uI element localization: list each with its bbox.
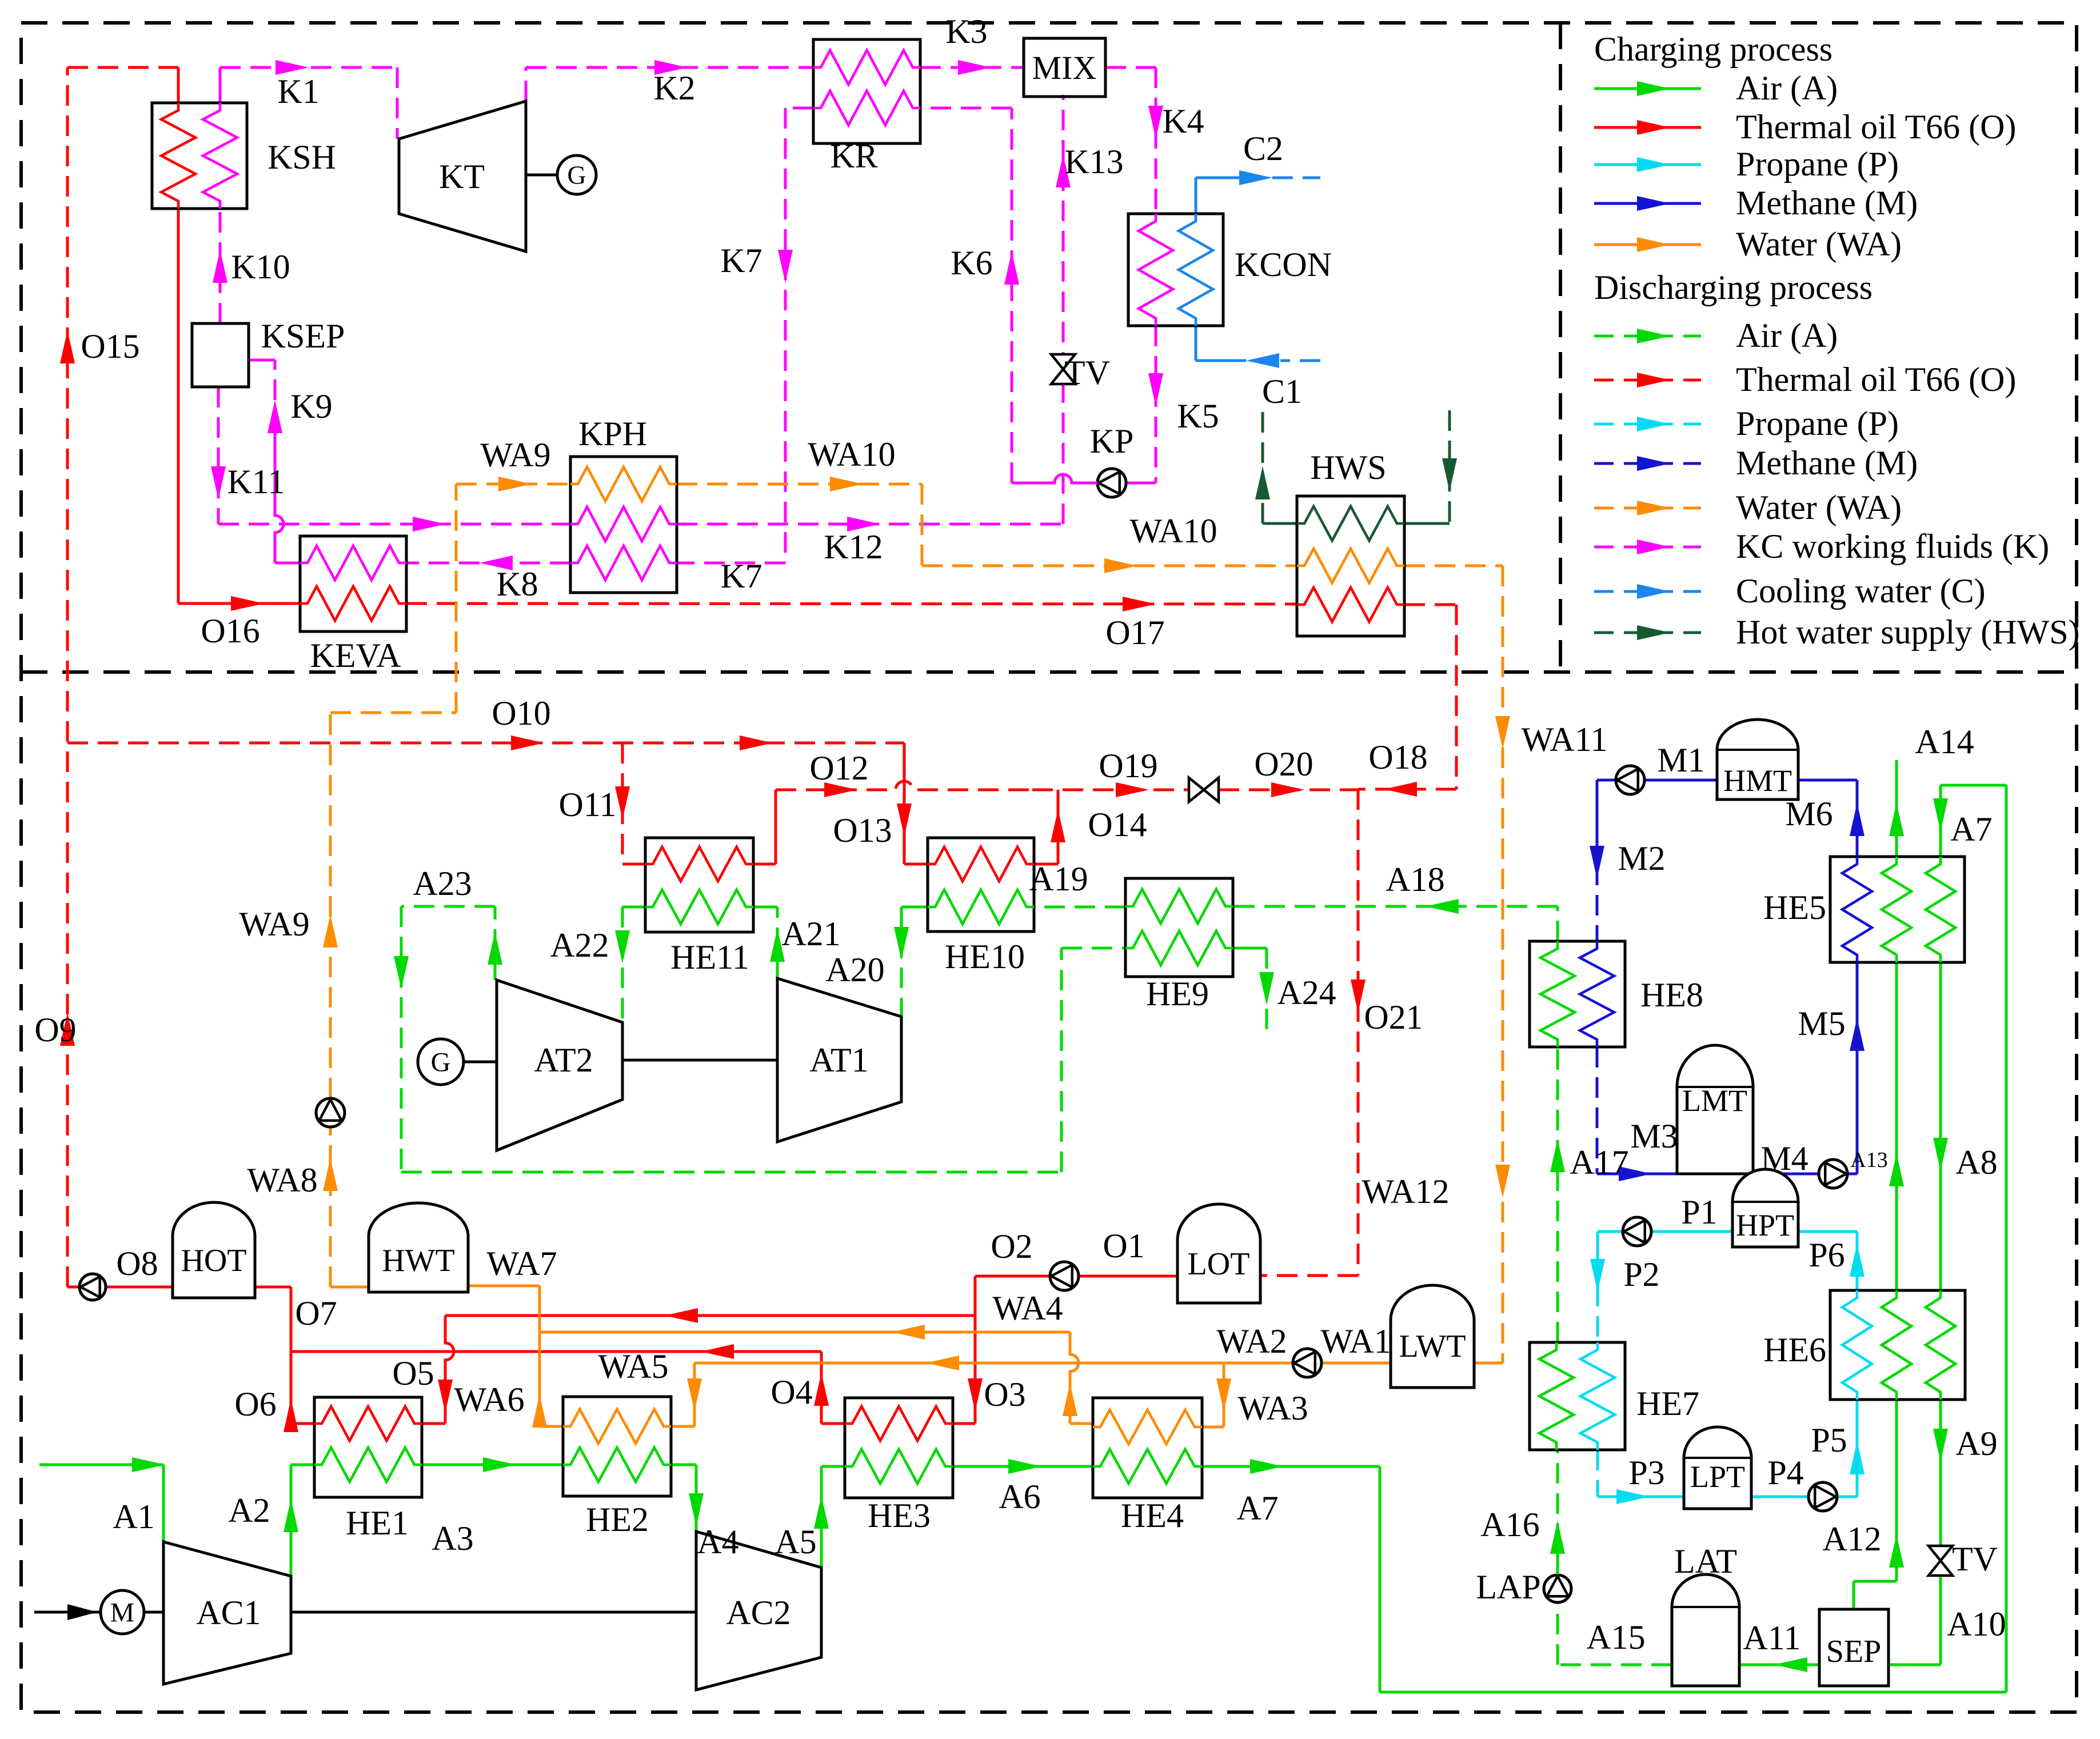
svg-text:A5: A5 — [774, 1523, 816, 1561]
svg-text:K2: K2 — [653, 69, 695, 107]
wire K4 magenta MIX to KCON — [1105, 67, 1163, 214]
wire WA1/WA2 orange from LWT via pump — [694, 1356, 1391, 1370]
wire A23 AT2 exhaust loop to HE9 bottom coil — [394, 906, 1125, 1172]
svg-text:HE5: HE5 — [1763, 889, 1826, 926]
wire A2 AC1 to HE1 — [284, 1465, 314, 1576]
wire K1 magenta dashed KSH to KT — [220, 60, 397, 139]
svg-text:Propane (P): Propane (P) — [1736, 405, 1899, 442]
tank LWT low-temperature water tank — [1391, 1285, 1474, 1388]
svg-text:AC1: AC1 — [196, 1594, 261, 1632]
heat exchanger HE11 — [645, 838, 753, 932]
svg-text:WA2: WA2 — [1216, 1322, 1287, 1360]
svg-text:K10: K10 — [231, 248, 290, 286]
svg-text:WA3: WA3 — [1237, 1389, 1308, 1427]
wire K6 magenta up to KR bottom coil — [920, 108, 1019, 483]
separator KSEP — [192, 323, 249, 387]
svg-text:O17: O17 — [1105, 614, 1164, 651]
wire O4 from HE3 up to oil return line — [814, 1352, 845, 1424]
wire K13 magenta up to MIX through valve — [1056, 95, 1071, 524]
wire WA7 into HWT — [468, 1285, 540, 1288]
svg-text:O19: O19 — [1099, 747, 1157, 785]
svg-text:Air (A): Air (A) — [1736, 69, 1838, 107]
pump P4 propane return pump — [1808, 1482, 1837, 1511]
svg-text:A22: A22 — [550, 926, 609, 964]
svg-text:A10: A10 — [1947, 1605, 2006, 1643]
svg-text:O1: O1 — [1103, 1227, 1144, 1265]
turbine AT2 air turbine 2 — [497, 980, 622, 1150]
tank HOT hot oil tank — [173, 1202, 255, 1298]
wire A22 HE11 down into AT2 — [615, 907, 645, 1022]
svg-text:TV: TV — [1952, 1540, 1998, 1578]
svg-text:Thermal oil T66 (O): Thermal oil T66 (O) — [1736, 361, 2016, 398]
heat exchanger HE7 — [1530, 1342, 1625, 1450]
wire P5 up into HE6 — [1850, 1400, 1865, 1497]
svg-text:O11: O11 — [558, 786, 616, 823]
svg-text:Propane (P): Propane (P) — [1736, 145, 1899, 183]
wire K3 magenta KR to MIX — [920, 60, 1024, 75]
svg-text:A6: A6 — [999, 1478, 1040, 1516]
tank LAT liquid air tank — [1672, 1574, 1739, 1686]
wire A4 HE2 down to AC2 — [671, 1465, 704, 1532]
svg-text:A18: A18 — [1386, 861, 1444, 898]
svg-text:KC working fluids (K): KC working fluids (K) — [1736, 527, 2049, 565]
wire HWS supply left vertical (out) — [1255, 410, 1297, 523]
svg-text:K13: K13 — [1064, 143, 1123, 181]
svg-text:A2: A2 — [228, 1492, 270, 1529]
wire red dashed HOT to O8 pump — [81, 1286, 173, 1289]
svg-text:M4: M4 — [1760, 1140, 1808, 1177]
svg-text:K9: K9 — [290, 387, 332, 425]
separator SEP — [1819, 1609, 1889, 1686]
svg-text:P2: P2 — [1623, 1256, 1659, 1293]
svg-text:O2: O2 — [991, 1228, 1032, 1265]
wire P4 from LPT via pump — [1751, 1496, 1857, 1498]
wire WA6 from HE2 up to HWT junction — [532, 1286, 563, 1428]
motor M of compressors — [34, 1590, 696, 1634]
wire O20 red dashed valve to junction — [1219, 782, 1358, 797]
svg-text:HWT: HWT — [382, 1243, 455, 1278]
heat exchanger HE4 — [1093, 1398, 1202, 1498]
valve TV on air line A9/A10 — [1929, 1546, 1953, 1576]
svg-text:P3: P3 — [1628, 1454, 1664, 1492]
svg-text:WA6: WA6 — [454, 1381, 524, 1418]
tank HMT high-temperature methane tank — [1717, 719, 1798, 799]
svg-text:WA4: WA4 — [992, 1289, 1063, 1327]
wire A13 HE6 up to HE5 — [1889, 962, 1904, 1290]
wire A18 HE8 up and left to HE9 — [1233, 899, 1558, 941]
heat exchanger KPH Kalina preheater — [570, 457, 677, 593]
svg-text:AT1: AT1 — [809, 1041, 868, 1079]
tank LPT low-temperature propane tank — [1684, 1427, 1751, 1509]
wire A12 SEP vapour up to HE6 — [1854, 1400, 1904, 1609]
turbine AT1 air turbine 1 — [777, 978, 901, 1142]
svg-text:KSH: KSH — [268, 138, 336, 176]
wire WA4 from HE4 riser (hops water line) to junction — [540, 1325, 1093, 1424]
svg-text:O4: O4 — [770, 1373, 812, 1411]
svg-text:A13: A13 — [1850, 1148, 1887, 1172]
svg-text:O21: O21 — [1364, 998, 1423, 1036]
svg-text:Water (WA): Water (WA) — [1736, 489, 1902, 526]
svg-text:O5: O5 — [392, 1354, 434, 1392]
svg-text:A1: A1 — [113, 1498, 154, 1536]
wire M3 from HE8 down to LMT — [1597, 1047, 1677, 1181]
svg-text:HE9: HE9 — [1146, 975, 1209, 1013]
svg-text:KR: KR — [830, 137, 877, 175]
wire A1 inlet air to AC1 — [39, 1457, 165, 1542]
valve on oil line O19/O20 — [1189, 778, 1219, 802]
svg-text:LOT: LOT — [1188, 1246, 1250, 1282]
wire A17 HE7 up to HE8 — [1550, 1047, 1565, 1342]
svg-text:O14: O14 — [1088, 806, 1147, 843]
svg-text:SEP: SEP — [1826, 1634, 1882, 1669]
wire A9/A10 HE6 down through TV valve to SEP — [1889, 1400, 1948, 1665]
svg-text:KEVA: KEVA — [310, 637, 401, 674]
wire M2 dark blue dashed down into HE8 — [1590, 834, 1604, 941]
svg-text:Water (WA): Water (WA) — [1736, 225, 1902, 263]
svg-text:K8: K8 — [496, 565, 538, 603]
svg-text:WA10: WA10 — [808, 435, 895, 473]
svg-text:A20: A20 — [825, 951, 884, 989]
tank HWT hot water tank — [369, 1203, 468, 1292]
svg-text:A15: A15 — [1586, 1618, 1645, 1656]
wire P6 from HE6 up to HPT — [1798, 1232, 1865, 1290]
svg-text:O20: O20 — [1254, 745, 1313, 783]
svg-text:MIX: MIX — [1032, 49, 1097, 86]
svg-text:A23: A23 — [413, 865, 472, 902]
svg-text:O3: O3 — [984, 1376, 1025, 1413]
wire P2 cyan dashed down into HE7 — [1590, 1259, 1605, 1342]
heat exchanger HE5 — [1830, 857, 1965, 962]
svg-text:A11: A11 — [1743, 1619, 1800, 1657]
wire K11 magenta KSEP down — [211, 387, 226, 524]
wire A14 HE5 exhaust up — [1889, 760, 1904, 857]
wire WA10 orange dashed KPH to HWS — [677, 477, 1297, 573]
wire O1 O2 red solid from LOT via pump — [975, 1275, 1177, 1278]
svg-text:O15: O15 — [81, 327, 139, 365]
svg-text:Discharging process: Discharging process — [1594, 269, 1873, 306]
svg-text:WA1: WA1 — [1320, 1322, 1391, 1360]
wire K9 magenta KEVA up to KSEP (hops over K12) — [249, 360, 300, 563]
svg-text:A24: A24 — [1277, 974, 1336, 1012]
pump O8 oil discharge pump — [79, 1274, 106, 1300]
svg-text:A16: A16 — [1480, 1506, 1539, 1544]
svg-text:HPT: HPT — [1736, 1208, 1794, 1242]
wire A5 AC2 up to HE3 — [814, 1466, 845, 1568]
svg-text:Cooling water (C): Cooling water (C) — [1736, 572, 1986, 610]
wire P1 HPT to pump to P2 — [1598, 1232, 1732, 1286]
compressor AC2 — [696, 1532, 821, 1690]
svg-text:KT: KT — [439, 158, 485, 195]
tank HPT high-temperature propane tank — [1732, 1169, 1798, 1247]
wire WA11/WA12 orange dashed HWS to LWT — [1404, 566, 1510, 1363]
svg-text:KPH: KPH — [578, 415, 647, 453]
svg-text:HE4: HE4 — [1121, 1497, 1184, 1534]
svg-text:O18: O18 — [1368, 738, 1427, 776]
compressor AC1 — [163, 1542, 291, 1684]
wire O13 red solid down into HE10 — [897, 743, 928, 864]
wire O14 red solid from HE10 up to oil line — [1034, 790, 1065, 864]
generator G of KT — [526, 155, 596, 194]
svg-text:HE11: HE11 — [670, 938, 749, 976]
generator G of air turbines — [418, 1039, 497, 1085]
heat exchanger KCON Kalina condenser — [1128, 214, 1223, 326]
wire O17 red dashed KEVA to HWS — [406, 597, 1297, 611]
wire A15 LAT to LAP pump — [1558, 1603, 1672, 1665]
svg-text:O6: O6 — [234, 1385, 276, 1423]
svg-text:WA10: WA10 — [1129, 512, 1217, 550]
wire O6/O7 riser from HE1 up to HOT — [255, 1287, 314, 1432]
svg-text:K4: K4 — [1162, 102, 1204, 140]
wire A6 HE3 to HE4 — [953, 1459, 1093, 1474]
wire M4 from LMT via pump — [1753, 1173, 1857, 1176]
svg-text:K11: K11 — [227, 463, 285, 501]
svg-text:A12: A12 — [1822, 1520, 1881, 1558]
wire O10 red dashed horizontal branch — [67, 735, 904, 750]
svg-text:O8: O8 — [116, 1245, 158, 1282]
wire O19 red dashed to throttle valve — [1032, 782, 1189, 797]
wire WA8/WA9 orange dashed from HWT up via pump to KPH — [323, 477, 570, 1287]
wire M6 from HE5 up to HMT — [1798, 780, 1865, 857]
svg-text:M: M — [110, 1597, 135, 1628]
svg-text:Methane (M): Methane (M) — [1736, 444, 1918, 482]
svg-text:HE7: HE7 — [1636, 1385, 1699, 1422]
heat exchanger KR recuperator — [813, 39, 920, 143]
svg-text:Charging process: Charging process — [1594, 30, 1832, 68]
wire A21 AT1 up to HE11 — [753, 907, 785, 978]
divider line between charging (top) and discharging (bottom) sections — [21, 670, 2077, 674]
svg-text:A14: A14 — [1915, 723, 1974, 761]
svg-text:WA8: WA8 — [247, 1161, 317, 1199]
wire O11 red dashed down into HE11 — [615, 743, 645, 864]
wire A7 HE4 to HE5 big loop — [1202, 785, 2006, 1692]
svg-text:HWS: HWS — [1310, 449, 1386, 486]
shaft AT2 to AT1 — [622, 1059, 777, 1062]
pump WA8 water pump — [316, 1098, 345, 1127]
wire P3 from HE7 to LPT — [1598, 1450, 1684, 1504]
svg-text:Thermal oil T66 (O): Thermal oil T66 (O) — [1736, 108, 2016, 146]
tank LOT low-temperature oil tank — [1177, 1204, 1260, 1303]
svg-text:LMT: LMT — [1682, 1084, 1747, 1118]
svg-text:HE2: HE2 — [586, 1501, 649, 1538]
svg-text:O7: O7 — [295, 1294, 337, 1332]
svg-text:G: G — [567, 161, 586, 190]
svg-text:M6: M6 — [1785, 795, 1832, 833]
svg-text:WA9: WA9 — [480, 436, 550, 474]
wire K7 magenta KR down to KPH — [677, 108, 813, 563]
svg-text:M2: M2 — [1618, 839, 1665, 877]
svg-text:HE1: HE1 — [346, 1504, 409, 1542]
svg-text:HE6: HE6 — [1763, 1331, 1826, 1369]
wire WA5 down into HE2 — [671, 1363, 702, 1426]
wire red solid through KSH vertical — [177, 67, 180, 603]
wire O9/O15 red dashed vertical from HOT pump up left side — [60, 67, 75, 1287]
svg-text:WA9: WA9 — [239, 905, 309, 943]
heat exchanger KEVA Kalina evaporator — [300, 536, 406, 631]
wire red branch line y2302 to O5 riser — [445, 1308, 975, 1323]
svg-text:WA5: WA5 — [598, 1348, 668, 1385]
svg-text:WA12: WA12 — [1362, 1173, 1449, 1210]
svg-text:HE3: HE3 — [868, 1497, 931, 1534]
svg-text:M5: M5 — [1798, 1005, 1845, 1042]
wire O12 from HE11 up and right (hops over O13) — [753, 781, 1032, 864]
wire KP outlet to K6 riser (hops over K13) — [1012, 474, 1097, 483]
pump LAP liquid air pump — [1544, 1575, 1571, 1602]
turbine KT Kalina turbine — [399, 101, 526, 251]
svg-text:HMT: HMT — [1723, 763, 1792, 798]
svg-text:P4: P4 — [1767, 1454, 1803, 1492]
svg-text:TV: TV — [1064, 354, 1110, 391]
svg-text:KP: KP — [1090, 422, 1134, 460]
heat exchanger HE8 — [1530, 941, 1625, 1047]
svg-text:M3: M3 — [1630, 1117, 1678, 1155]
wire A11 SEP to LAT — [1739, 1657, 1819, 1672]
pump WA1/WA2 water charge pump — [1293, 1349, 1322, 1377]
svg-text:LAT: LAT — [1674, 1542, 1737, 1580]
heat exchanger HE2 — [563, 1397, 671, 1496]
heat exchanger HE3 — [845, 1398, 953, 1498]
heat exchanger HE9 — [1125, 878, 1233, 977]
svg-text:KCON: KCON — [1235, 246, 1332, 283]
svg-text:Air (A): Air (A) — [1736, 317, 1838, 354]
svg-text:P1: P1 — [1681, 1193, 1717, 1231]
svg-text:KSEP: KSEP — [261, 317, 345, 355]
pump O1/O2 oil charge pump — [1050, 1262, 1079, 1290]
mixer MIX — [1024, 38, 1105, 97]
svg-text:A8: A8 — [1955, 1144, 1997, 1181]
heat exchanger HE1 — [314, 1397, 422, 1497]
wire A16 up to HE7 — [1550, 1450, 1565, 1574]
wire M1 HMT to pump to M2 — [1597, 780, 1717, 834]
wire K10 magenta KSEP to KSH — [213, 209, 227, 323]
svg-text:K5: K5 — [1177, 397, 1219, 435]
svg-text:C2: C2 — [1243, 130, 1283, 167]
pump P1 propane pump — [1623, 1217, 1651, 1246]
svg-text:LPT: LPT — [1690, 1460, 1745, 1494]
wire C2 cooling water out of KCON — [1196, 170, 1320, 214]
wire A24 HE9 exhaust down — [1233, 948, 1274, 1037]
pump KP Kalina pump — [1097, 469, 1126, 497]
svg-text:C1: C1 — [1262, 373, 1302, 410]
wire O21 red dashed from junction down to LOT — [1260, 789, 1366, 1276]
wire A8 HE5 down to HE6 — [1933, 962, 1948, 1290]
svg-text:HE10: HE10 — [945, 938, 1025, 976]
svg-text:Methane (M): Methane (M) — [1736, 184, 1918, 222]
pump M4 methane return pump — [1819, 1160, 1847, 1188]
wire WA3 down into HE4 — [1202, 1363, 1231, 1427]
svg-text:P6: P6 — [1808, 1236, 1845, 1274]
svg-text:K6: K6 — [951, 244, 992, 282]
svg-text:A19: A19 — [1029, 860, 1088, 898]
svg-text:A3: A3 — [432, 1520, 473, 1557]
valve TV on K13 — [1051, 354, 1075, 384]
svg-text:A17: A17 — [1570, 1144, 1628, 1181]
heat exchanger HE6 — [1830, 1290, 1965, 1400]
wire K8 magenta KPH to KEVA — [406, 555, 570, 570]
svg-text:HOT: HOT — [181, 1243, 246, 1278]
wire K5 magenta KCON down to KP pump — [1126, 326, 1163, 483]
svg-text:M1: M1 — [1657, 741, 1704, 779]
svg-text:G: G — [431, 1047, 451, 1077]
legend discharging process — [1594, 269, 2080, 651]
wire red dashed top horizontal to KSH — [67, 66, 178, 69]
svg-text:K1: K1 — [277, 73, 319, 110]
wire O2 red vertical down to HE3 — [953, 1276, 983, 1424]
svg-text:A7: A7 — [1236, 1489, 1278, 1527]
wire A3 HE1 to HE2 — [422, 1457, 563, 1472]
legend box left border — [1559, 23, 1562, 672]
wire O16 into KEVA — [178, 596, 300, 611]
svg-text:O10: O10 — [492, 694, 550, 732]
heat exchanger HE10 — [928, 838, 1034, 932]
wire K12 magenta to KPH middle coil and on to K13 — [218, 517, 1063, 531]
legend charging process — [1594, 30, 2016, 263]
svg-text:K12: K12 — [824, 528, 883, 566]
pump M1 methane pump — [1616, 766, 1644, 794]
tank LMT low-temperature methane tank — [1677, 1045, 1753, 1174]
svg-text:A4: A4 — [697, 1523, 738, 1561]
wire O18 red dashed from HWS down to valve junction — [1358, 605, 1456, 797]
wire K2 magenta dashed KT to KR — [526, 60, 813, 101]
svg-text:AC2: AC2 — [726, 1594, 791, 1632]
svg-text:Hot water supply (HWS): Hot water supply (HWS) — [1736, 613, 2080, 651]
svg-text:K7: K7 — [720, 242, 762, 279]
svg-text:K3: K3 — [945, 13, 987, 50]
wire oil return line y2365 to O6/O7 riser — [291, 1344, 821, 1359]
svg-text:P5: P5 — [1811, 1421, 1847, 1459]
svg-text:O13: O13 — [833, 811, 892, 849]
wire C1 cooling water into KCON — [1196, 326, 1320, 368]
heat exchanger KSH superheater — [152, 103, 247, 209]
svg-text:WA7: WA7 — [486, 1245, 557, 1282]
wire M5 up into HE5 — [1850, 962, 1865, 1174]
svg-text:O16: O16 — [201, 612, 259, 650]
svg-text:HE8: HE8 — [1640, 976, 1703, 1014]
heat exchanger HWS hot water supply — [1297, 496, 1404, 636]
svg-text:WA11: WA11 — [1521, 721, 1607, 758]
svg-text:O12: O12 — [809, 749, 868, 787]
svg-text:A7: A7 — [1950, 810, 1992, 848]
svg-text:K7: K7 — [720, 557, 762, 595]
svg-text:LWT: LWT — [1399, 1329, 1466, 1364]
wire A20 HE10 down into AT1 — [894, 907, 928, 1017]
svg-text:A9: A9 — [1955, 1425, 1997, 1462]
svg-text:AT2: AT2 — [534, 1041, 593, 1079]
wire A19 HE9 to HE10 — [1034, 906, 1125, 909]
svg-text:O9: O9 — [34, 1011, 76, 1049]
svg-text:A21: A21 — [781, 915, 840, 953]
wire HWS supply right vertical (in) — [1404, 410, 1457, 523]
wire O5 riser down into HE1 (hops water line) — [422, 1316, 454, 1424]
svg-text:LAP: LAP — [1476, 1568, 1540, 1606]
